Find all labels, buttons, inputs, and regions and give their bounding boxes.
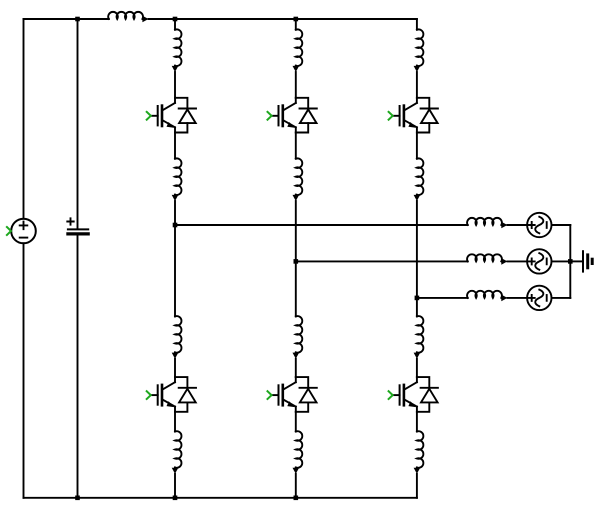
- wire phase C rail: [417, 297, 468, 299]
- wire IGBT T1 to L1b: [174, 133, 176, 159]
- wire L2c to IGBT T5: [295, 359, 297, 377]
- AC source Va: [527, 213, 551, 237]
- node: top rail capacitor junction: [75, 17, 80, 22]
- inductor Lc: [467, 291, 507, 301]
- wire top rail left: [24, 18, 109, 20]
- capacitor C_dc bottom wire: [77, 235, 79, 498]
- node: bottom rail leg 1 junction: [173, 496, 178, 501]
- leg 1: wire from top rail: [174, 19, 176, 30]
- wire right bus: [569, 225, 571, 298]
- IGBT T5 with diode D5: [268, 377, 317, 412]
- inductor L3c: [414, 316, 424, 359]
- node: top rail leg 2 junction: [294, 17, 299, 22]
- wire neutral to ground: [570, 260, 582, 262]
- DC source V_dc: [7, 219, 36, 244]
- inductor L3b: [414, 158, 424, 201]
- inductor Lb: [467, 254, 507, 264]
- leg 2: wire from top rail: [295, 19, 297, 30]
- inductor L1c: [172, 316, 182, 359]
- node: phase B junction: [294, 259, 299, 264]
- wire La to source Va: [507, 224, 527, 226]
- inductor L2b: [293, 158, 303, 201]
- ground: [583, 251, 592, 271]
- wire L2d to bottom rail: [295, 474, 297, 498]
- wire L1c to IGBT T4: [174, 359, 176, 377]
- inductor L1b: [172, 158, 182, 201]
- AC source Vb: [527, 249, 551, 273]
- inductor L_dc top: [108, 12, 148, 22]
- wire L3d to bottom rail: [416, 474, 418, 498]
- inductor La: [467, 218, 507, 228]
- wire Va to right bus: [552, 224, 571, 226]
- wire L1a to IGBT T1: [174, 72, 176, 98]
- node: right bus neutral junction: [568, 259, 573, 264]
- wire L3a to IGBT T3: [416, 72, 418, 98]
- wire L3b to phase C node: [416, 201, 418, 298]
- wire phase C down leg 3: [416, 298, 418, 317]
- wire phase A rail: [175, 224, 468, 226]
- wire L2b to phase B node: [295, 201, 297, 261]
- wire Vb to right bus: [552, 260, 571, 262]
- inductor L2c: [293, 316, 303, 359]
- inductor L2a: [293, 29, 303, 72]
- wire IGBT T4 to L1d: [174, 412, 176, 432]
- wire left vertical upper: [23, 19, 25, 219]
- wire Vc to right bus: [552, 297, 571, 299]
- IGBT T3 with diode D3: [389, 98, 438, 133]
- leg 3: wire from top rail: [416, 19, 418, 30]
- wire IGBT T5 to L2d: [295, 412, 297, 432]
- inductor L2d: [293, 431, 303, 474]
- node: phase A junction: [173, 223, 178, 228]
- wire phase B down leg 2: [295, 261, 297, 316]
- wire L2a to IGBT T2: [295, 72, 297, 98]
- node: top rail leg 1 junction: [173, 17, 178, 22]
- wire Lc to source Vc: [507, 297, 527, 299]
- inductor L1d: [172, 431, 182, 474]
- inductor L3a: [414, 29, 424, 72]
- IGBT T1 with diode D1: [147, 98, 196, 133]
- wire top rail right: [149, 18, 417, 20]
- wire phase A down leg 1: [174, 225, 176, 316]
- node: bottom rail leg 2 junction: [294, 496, 299, 501]
- wire L3c to IGBT T6: [416, 359, 418, 377]
- node: bottom rail capacitor junction: [75, 496, 80, 501]
- wire bottom rail: [24, 497, 417, 499]
- AC source Vc: [527, 286, 551, 310]
- wire IGBT T3 to L3b: [416, 133, 418, 159]
- capacitor C_dc top wire: [77, 19, 79, 229]
- wire Lb to source Vb: [507, 260, 527, 262]
- node: phase C junction: [415, 296, 420, 301]
- inductor L3d: [414, 431, 424, 474]
- wire left vertical lower: [23, 243, 25, 497]
- wire phase B rail: [296, 260, 468, 262]
- wire L1d to bottom rail: [174, 474, 176, 498]
- wire IGBT T2 to L2b: [295, 133, 297, 159]
- IGBT T2 with diode D2: [268, 98, 317, 133]
- capacitor C_dc: [67, 218, 88, 234]
- IGBT T4 with diode D4: [147, 377, 196, 412]
- inductor L1a: [172, 29, 182, 72]
- IGBT T6 with diode D6: [389, 377, 438, 412]
- wire IGBT T6 to L3d: [416, 412, 418, 432]
- wire L1b to phase A node: [174, 201, 176, 225]
